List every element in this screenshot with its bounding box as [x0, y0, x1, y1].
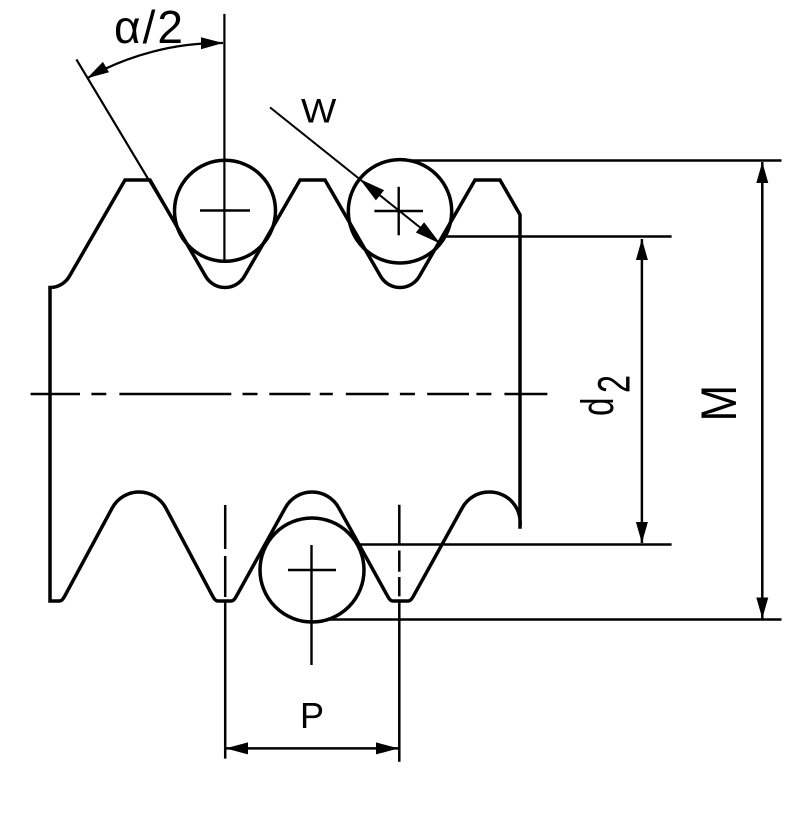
P right extension line dashed	[398, 505, 401, 597]
thread profile outline	[50, 180, 520, 601]
angle arc alpha/2	[87, 43, 223, 78]
arc arrow right	[201, 37, 223, 49]
W arrow lower	[416, 222, 440, 243]
svg-text:W: W	[301, 92, 337, 130]
W dimension line	[270, 107, 440, 243]
P arrow right	[376, 742, 399, 754]
vertical reference line through wire W1	[223, 14, 225, 262]
svg-text:2: 2	[590, 375, 639, 393]
P dimension line	[225, 747, 398, 750]
flank extension line (angle leg)	[76, 59, 180, 232]
wire W3 bottom	[260, 518, 364, 622]
P arrow left	[225, 742, 248, 754]
svg-text:α/2: α/2	[114, 1, 185, 53]
M arrow top	[756, 162, 768, 183]
svg-text:M: M	[690, 385, 746, 422]
wire W1 top-left	[175, 160, 276, 261]
M bottom extension line	[326, 618, 782, 621]
M arrow bottom	[756, 598, 768, 619]
d2 bottom extension line	[357, 543, 672, 546]
svg-text:d: d	[573, 397, 623, 416]
d2 top extension line	[443, 235, 672, 238]
crosshair W2	[374, 210, 423, 212]
P left extension line dashed	[224, 505, 227, 601]
wire W2 top-right	[348, 160, 451, 263]
W arrow upper	[360, 179, 384, 200]
P left extension line solid	[224, 601, 227, 759]
arc arrow left	[87, 62, 109, 78]
M dimension line	[761, 162, 764, 619]
P right extension line solid	[398, 601, 401, 762]
d2 dimension line	[641, 239, 644, 543]
M top extension line	[408, 159, 782, 162]
svg-text:P: P	[300, 695, 324, 736]
d2 arrow bottom	[636, 522, 648, 543]
crosshair W3	[288, 569, 336, 571]
crosshair W1 horizontal	[200, 209, 250, 211]
axis centerline	[31, 393, 548, 395]
d2 arrow top	[636, 239, 648, 260]
